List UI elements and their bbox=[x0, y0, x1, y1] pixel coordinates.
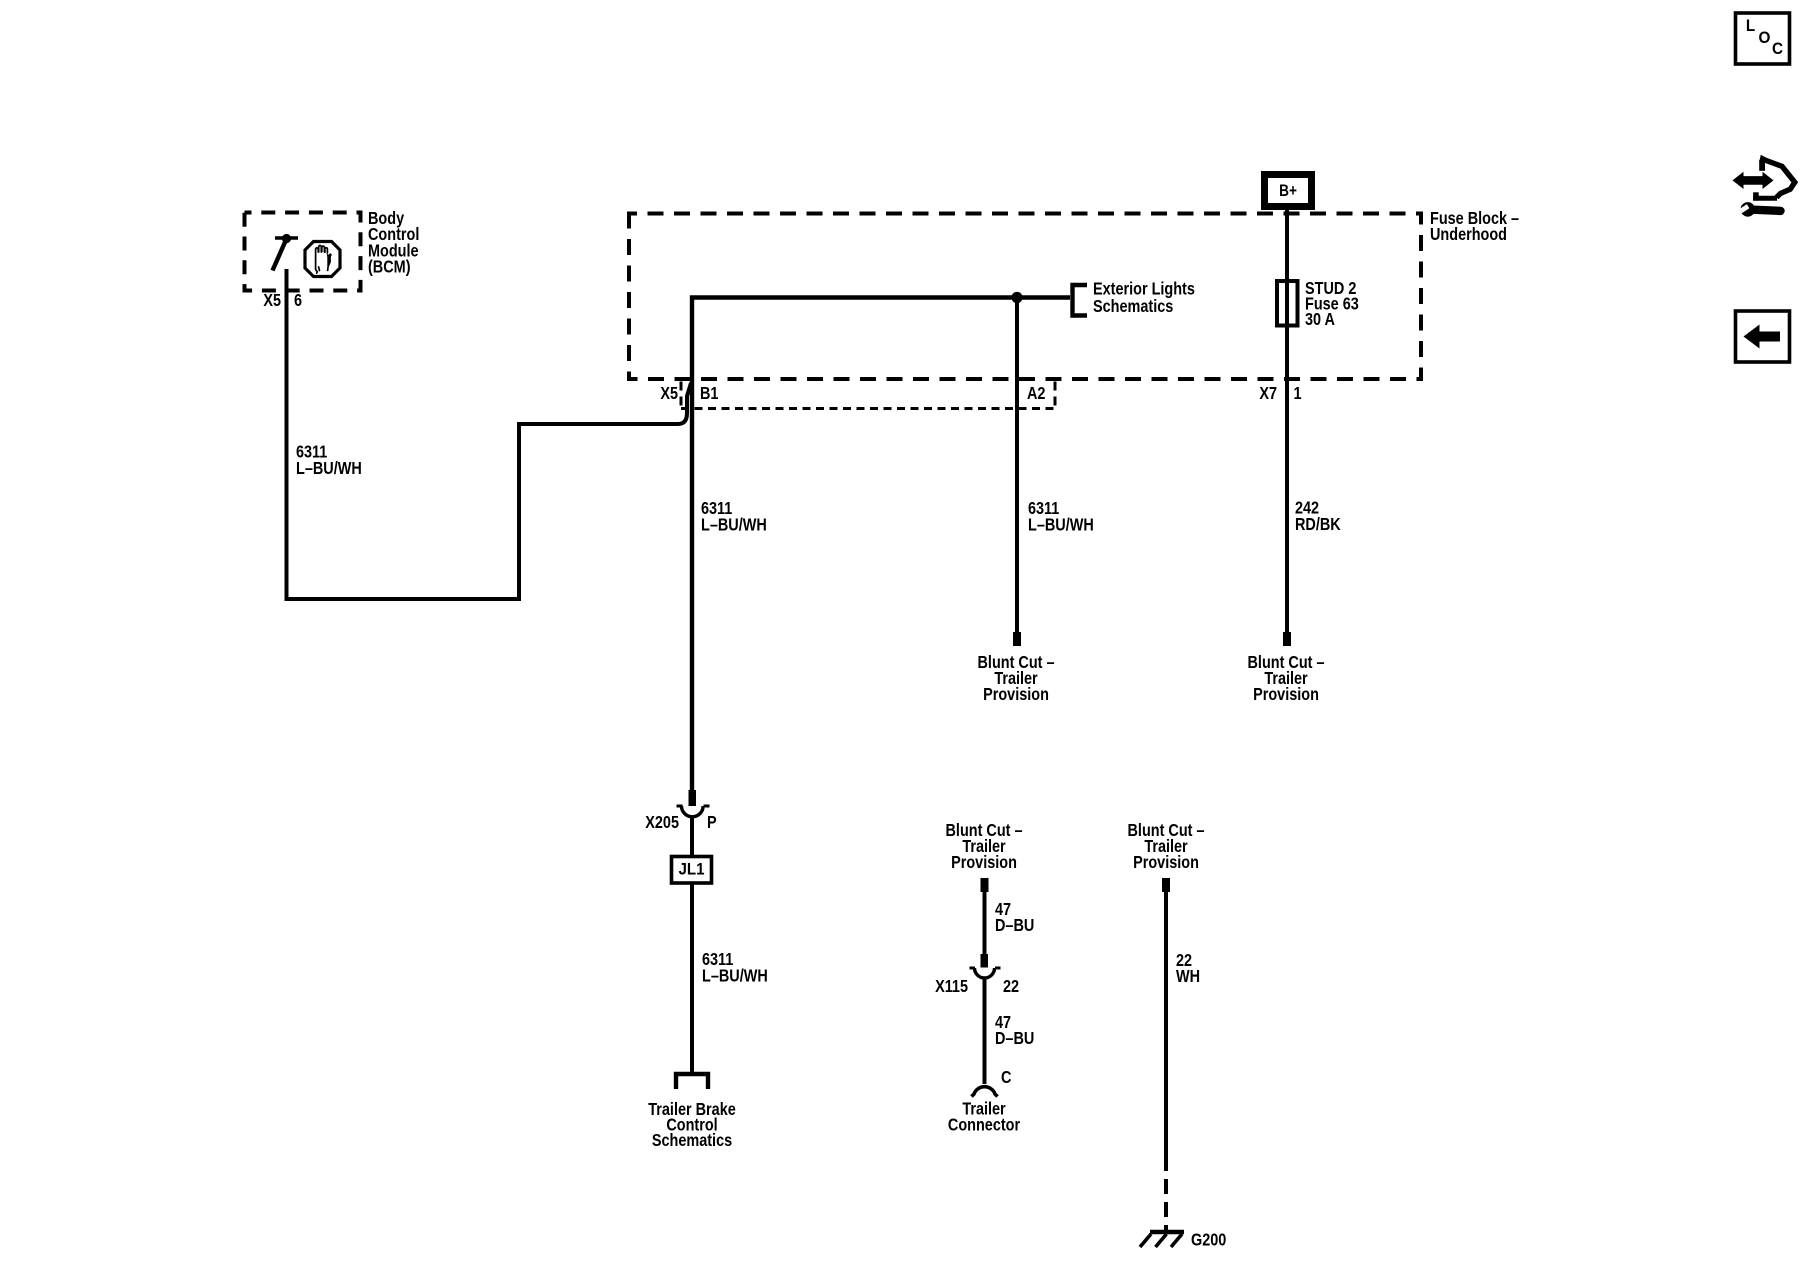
hand-in-octagon icon (driver interface) bbox=[305, 242, 340, 277]
svg-text:X115: X115 bbox=[935, 978, 968, 996]
ground G200 bbox=[1140, 1232, 1184, 1247]
wire label 22 WH bbox=[1176, 952, 1200, 986]
svg-text:Exterior Lights: Exterior Lights bbox=[1093, 280, 1195, 298]
inline connector X205 pin P bbox=[677, 790, 710, 817]
svg-text:X7: X7 bbox=[1259, 385, 1277, 403]
svg-text:Connector: Connector bbox=[948, 1116, 1020, 1134]
battery feed B+ box bbox=[1265, 175, 1312, 207]
LOC icon (top right) bbox=[1736, 13, 1790, 64]
svg-text:A2: A2 bbox=[1027, 385, 1046, 403]
svg-text:P: P bbox=[707, 814, 717, 832]
fuse label bbox=[1305, 280, 1359, 329]
switch S inside BCM bbox=[273, 234, 299, 271]
blunt cut stub (22 WH) bbox=[1162, 878, 1170, 892]
wire to exterior lights (horizontal) bbox=[692, 298, 1070, 791]
svg-text:Schematics: Schematics bbox=[1093, 298, 1173, 316]
wire B+ to fuse bbox=[1285, 210, 1289, 282]
off-page bracket to Trailer Brake Control Schematics bbox=[676, 1074, 708, 1089]
wire label 242 RD/BK bbox=[1295, 499, 1341, 534]
svg-text:D–BU: D–BU bbox=[995, 917, 1034, 935]
svg-text:O: O bbox=[1759, 28, 1771, 47]
svg-text:B+: B+ bbox=[1279, 182, 1297, 200]
trailer brake control label bbox=[648, 1101, 736, 1150]
svg-text:Provision: Provision bbox=[983, 686, 1049, 704]
trailer connector label bbox=[948, 1100, 1020, 1134]
blunt cut label (22 WH branch) bbox=[1127, 822, 1204, 872]
wire label 6311 L-BU/WH (B1 run) bbox=[701, 500, 767, 535]
svg-text:JL1: JL1 bbox=[678, 861, 704, 879]
svg-text:Underhood: Underhood bbox=[1430, 226, 1507, 244]
wire 6311 from BCM (down, right, up to X5-B1) bbox=[287, 269, 692, 599]
module box BCM (dashed) bbox=[245, 213, 361, 291]
splice pack JL1 bbox=[672, 857, 712, 884]
svg-text:X205: X205 bbox=[645, 814, 679, 832]
exterior lights label bbox=[1093, 280, 1195, 316]
svg-text:Schematics: Schematics bbox=[652, 1132, 732, 1150]
X115 connector labels bbox=[935, 978, 1019, 996]
wire 6311 branch A2 down to blunt cut bbox=[1015, 298, 1019, 635]
svg-text:Provision: Provision bbox=[1253, 686, 1319, 704]
svg-text:X5: X5 bbox=[660, 385, 678, 403]
svg-text:Provision: Provision bbox=[951, 854, 1017, 872]
svg-text:L: L bbox=[1746, 16, 1755, 35]
svg-text:L–BU/WH: L–BU/WH bbox=[701, 516, 767, 534]
wire 47 D-BU upper bbox=[983, 892, 987, 955]
wire 22 WH down bbox=[1164, 892, 1168, 1171]
fuse 63 (STUD 2, 30 A) bbox=[1277, 281, 1298, 326]
fuse block underhood box (dashed) bbox=[629, 214, 1421, 380]
svg-text:C: C bbox=[1001, 1069, 1012, 1087]
blunt cut stub (242) bbox=[1283, 632, 1291, 646]
fuse block label bbox=[1430, 210, 1519, 244]
dashed wire to ground bbox=[1164, 1179, 1168, 1232]
wire label 6311 L-BU/WH (lower run) bbox=[702, 951, 768, 986]
svg-text:1: 1 bbox=[1294, 385, 1302, 403]
svg-text:X5: X5 bbox=[263, 292, 281, 310]
svg-text:(BCM): (BCM) bbox=[368, 258, 411, 276]
pin label X5 / 6 at BCM bbox=[263, 292, 302, 310]
svg-text:Provision: Provision bbox=[1133, 854, 1199, 872]
svg-text:6: 6 bbox=[294, 292, 302, 310]
svg-text:B1: B1 bbox=[700, 385, 719, 403]
pin label X7 / 1 bbox=[1259, 385, 1301, 403]
svg-text:L–BU/WH: L–BU/WH bbox=[702, 967, 768, 985]
svg-text:G200: G200 bbox=[1191, 1231, 1226, 1249]
connector strip X5 (dashed edges) bbox=[681, 382, 1057, 409]
junction node bbox=[1011, 292, 1022, 303]
wire label 6311 L-BU/WH (A2 run) bbox=[1028, 500, 1094, 535]
svg-text:WH: WH bbox=[1176, 968, 1200, 986]
svg-text:L–BU/WH: L–BU/WH bbox=[296, 460, 362, 478]
blunt cut label (242 branch) bbox=[1247, 654, 1324, 704]
wire 6311 JL1 down to trailer brake control bbox=[690, 883, 694, 1074]
wire 47 D-BU lower bbox=[983, 978, 987, 1084]
off-page bracket to Exterior Lights Schematics bbox=[1073, 285, 1088, 316]
svg-text:22: 22 bbox=[1003, 978, 1019, 996]
svg-text:L–BU/WH: L–BU/WH bbox=[1028, 516, 1094, 534]
blunt cut stub (A2 branch) bbox=[1013, 632, 1021, 646]
blunt cut label (47 D-BU branch) bbox=[945, 822, 1022, 872]
blunt cut label (A2 branch) bbox=[977, 654, 1054, 704]
svg-text:C: C bbox=[1772, 39, 1783, 58]
jump-to-schematic icon (arrows and wrench) bbox=[1733, 155, 1795, 217]
svg-text:RD/BK: RD/BK bbox=[1295, 516, 1341, 534]
wire 242 from fuse down to blunt cut bbox=[1285, 326, 1289, 634]
inline connector X115 pin 22 bbox=[970, 954, 1001, 978]
wire label 6311 L-BU/WH (left run) bbox=[296, 443, 362, 478]
wire label 47 D-BU (lower) bbox=[995, 1014, 1034, 1048]
wire label 47 D-BU (upper) bbox=[995, 901, 1034, 935]
svg-text:30 A: 30 A bbox=[1305, 311, 1335, 329]
back arrow icon (bottom right) bbox=[1736, 311, 1790, 362]
svg-text:D–BU: D–BU bbox=[995, 1030, 1034, 1048]
connector pin labels X5 B1 A2 bbox=[660, 385, 1045, 403]
trailer connector socket (arc) bbox=[972, 1087, 998, 1097]
BCM label text bbox=[368, 210, 419, 277]
X205 connector labels bbox=[645, 814, 717, 832]
blunt cut stub (47 D-BU) bbox=[981, 878, 989, 892]
wire X205 to JL1 bbox=[690, 817, 694, 856]
